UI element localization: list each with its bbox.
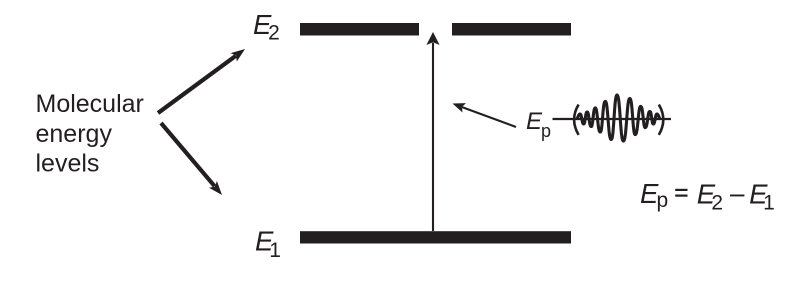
svg-text:1: 1: [269, 239, 281, 262]
E2 energy level bar (left segment): [300, 23, 419, 36]
svg-text:p: p: [657, 189, 669, 212]
svg-text:energy: energy: [36, 120, 113, 148]
right parenthesis: [659, 105, 664, 135]
transition arrow E1 to E2: [432, 43, 434, 231]
svg-text:p: p: [541, 121, 551, 141]
photon wave packet: [577, 95, 659, 141]
E1 energy level bar: [300, 231, 571, 243]
left parenthesis: [574, 105, 579, 135]
arrow to E2 level: [158, 56, 236, 113]
arrow to E1 level: [161, 123, 215, 186]
photon axis line: [553, 118, 672, 120]
svg-text:2: 2: [268, 21, 280, 44]
equation Ep = E2 - E1: [640, 178, 775, 215]
svg-text:2: 2: [711, 192, 723, 215]
svg-text:levels: levels: [36, 149, 100, 177]
svg-text:1: 1: [763, 192, 775, 215]
E2 energy level bar (right segment): [452, 23, 571, 36]
svg-text:Molecular: Molecular: [36, 90, 144, 118]
photon pointer arrow: [462, 107, 516, 127]
